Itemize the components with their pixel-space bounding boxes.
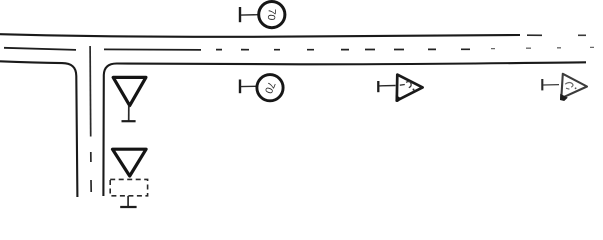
sign: warning triangle (far right, faces right), post bar — [541, 79, 543, 90]
sign: speed limit 70 (south side), post arm — [241, 85, 257, 87]
sign: warning triangle (far right), inner symbol — [565, 83, 573, 88]
sign: warning triangle (middle, faces right), post arm — [379, 85, 396, 87]
svg-text:70: 70 — [265, 8, 278, 21]
centre line: main road, faint far dashes — [491, 47, 594, 48]
centre line: side road, long dash — [89, 46, 92, 137]
sign: give way (upper), post — [128, 106, 130, 121]
sign: give way (lower), post — [127, 196, 129, 207]
sign: warning triangle (far right), triangle — [561, 74, 587, 98]
sign: speed limit 70 (north side), post arm — [241, 14, 258, 16]
sign: give way (upper), post foot — [122, 120, 136, 122]
centre line: main road, long dash left of junction — [4, 48, 76, 50]
centre line: main road, short dashes — [216, 48, 470, 50]
sign: warning triangle (middle, faces right), triangle — [397, 75, 423, 101]
road edge: main road bottom left + left kerb of side road — [0, 61, 77, 197]
sign: warning triangle (far right), post arm — [543, 84, 559, 86]
centre line: main road, long dash right of junction — [104, 48, 201, 51]
road edge: main road top, broken end segments — [527, 34, 542, 36]
sign: warning triangle (middle, faces right), post bar — [377, 81, 379, 92]
sign: speed limit 70 (south side), disc — [257, 75, 283, 101]
centre line: side road, short dashes — [90, 152, 92, 192]
sign: give way (lower), triangle — [113, 149, 147, 176]
sign: warning triangle (middle), corner blob — [395, 95, 401, 102]
road edge: main road bottom right + right kerb of side road — [103, 62, 586, 196]
road edge: main road top, solid part — [0, 34, 520, 37]
sign: give way (upper), triangle — [113, 77, 146, 105]
sign: give way (lower), dashed supplementary plate — [110, 179, 147, 195]
sign: give way (lower), post foot — [120, 206, 136, 208]
sign: speed limit 70 (north side), disc — [259, 2, 285, 28]
sign: speed limit 70 (south side), post bar — [239, 80, 241, 94]
sign: warning triangle (far right), corner blob — [560, 94, 568, 101]
sign: speed limit 70 (north side), post bar — [239, 7, 241, 22]
sign: warning triangle (middle), inner symbol — [400, 84, 405, 87]
